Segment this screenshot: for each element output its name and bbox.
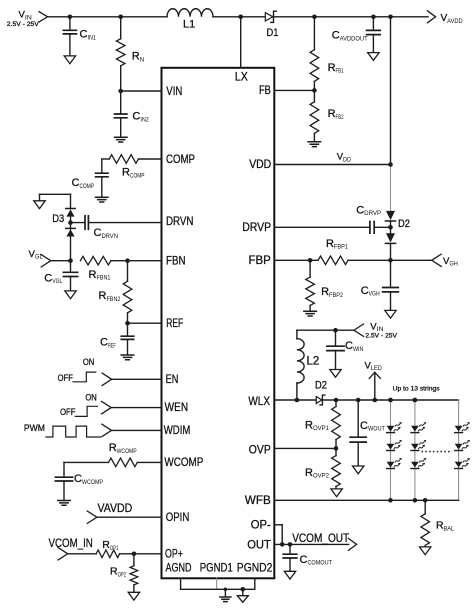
diode D1 <box>265 13 273 21</box>
ground (CIN1) <box>64 56 75 64</box>
wire VDD to D2 pump <box>390 165 392 212</box>
wire AGND stub <box>180 578 182 589</box>
wire EN pin <box>112 378 162 380</box>
diode D3 (lower) <box>66 229 74 236</box>
junction CWOUT <box>356 398 361 403</box>
junction OVP divider top <box>334 398 339 403</box>
svg-text:OVP: OVP <box>249 443 271 457</box>
junction rail/RFB1 <box>312 14 317 19</box>
svg-text:D2: D2 <box>398 218 410 230</box>
inductor L1 <box>167 9 213 17</box>
junction VIN/CIN2 <box>118 89 123 94</box>
wire pump to FBP node <box>390 244 392 260</box>
LED D3b <box>455 444 463 450</box>
wire FB pin <box>274 89 314 91</box>
diode D2 pump (lower) <box>386 233 395 242</box>
junction VGL/CVGL/RFBN1 <box>68 258 73 263</box>
junction FBP/CVGH <box>388 258 393 263</box>
svg-text:2.5V - 25V: 2.5V - 25V <box>365 332 398 339</box>
capacitor CVGH <box>390 260 392 287</box>
wire AVDD rail down to VDD node <box>390 17 392 165</box>
svg-text:Up to 13 strings: Up to 13 strings <box>393 385 440 392</box>
LED D1a <box>387 426 395 432</box>
resistor RCOMP <box>109 155 138 164</box>
wire LED string 1 <box>390 400 392 500</box>
svg-text:OP-: OP- <box>251 518 271 532</box>
junction FBP/RFBP2 <box>308 258 313 263</box>
ground (earth, bus) <box>224 589 226 597</box>
svg-text:OFF: OFF <box>58 373 73 384</box>
junction LED string 1 top <box>388 398 393 403</box>
resistor ROP2 <box>133 554 135 566</box>
svg-text:DRVN: DRVN <box>166 214 194 228</box>
ground (CCOMP) <box>96 197 109 202</box>
wire D3 top to ground <box>39 194 41 201</box>
ground (CWCOMP) <box>58 501 70 506</box>
wire LED string 3 <box>458 400 460 500</box>
diode D3 (upper) <box>66 209 74 216</box>
svg-text:D1: D1 <box>267 27 279 39</box>
wire VGL to junction <box>51 260 71 262</box>
junction rail/CIN1 <box>68 14 73 19</box>
junction rail/LX <box>238 14 243 19</box>
resistor RN <box>120 17 122 39</box>
svg-text:VDD: VDD <box>249 157 271 171</box>
junction rail/CAVDDOUT <box>371 14 376 19</box>
wire FBP pin <box>274 259 318 261</box>
svg-text:PGND2: PGND2 <box>237 561 273 575</box>
node VAVDD output arrow <box>427 11 435 23</box>
junction OUT/OP- <box>280 542 285 547</box>
junction OVP divider <box>334 446 339 451</box>
svg-text:WEN: WEN <box>165 400 189 414</box>
junction REF/CREF <box>125 321 130 326</box>
diode D2 pump (upper) <box>386 211 395 220</box>
svg-text:L1: L1 <box>183 19 195 31</box>
ground (CREF) <box>121 355 134 360</box>
svg-text:FB: FB <box>259 83 271 97</box>
node VIN terminal (boost) <box>354 324 364 336</box>
wire REF pin <box>128 322 162 324</box>
svg-text:EN: EN <box>166 372 179 386</box>
resistor RFB2 <box>313 90 315 101</box>
svg-text:COMP: COMP <box>166 152 195 166</box>
capacitor CVGL <box>70 261 72 273</box>
junction rail/VDD branch <box>388 14 393 19</box>
ground (CVGL) <box>65 291 76 299</box>
svg-text:D2: D2 <box>315 380 327 392</box>
capacitor CREF <box>127 323 129 336</box>
ground (RBAL) <box>420 547 431 555</box>
svg-text:WCOMP: WCOMP <box>164 455 203 469</box>
wire VIN pin <box>121 90 162 92</box>
resistor RFBN1 <box>80 256 110 265</box>
wire VDD pin <box>274 164 390 166</box>
resistor RFBN2 <box>127 261 129 282</box>
junction VLED <box>373 398 378 403</box>
ground (D3 top) <box>34 201 45 209</box>
junction OUT/CCOMOUT <box>288 542 293 547</box>
LED D3c <box>455 462 463 468</box>
svg-text:OPIN: OPIN <box>166 510 190 524</box>
svg-text:ON: ON <box>83 357 95 368</box>
dots (more strings) <box>422 451 453 453</box>
inductor L2 <box>296 330 298 339</box>
wire ground bus <box>181 588 255 590</box>
wire between pump diodes <box>390 221 392 233</box>
LED D1c <box>387 462 395 468</box>
resistor RFBP2 <box>309 260 311 277</box>
junction LED string 2 top <box>413 398 418 403</box>
ground (ROP2) <box>128 592 139 600</box>
capacitor CIN1 <box>69 17 71 30</box>
wire WEN pin <box>111 407 161 409</box>
ground (CWIN) <box>330 370 341 378</box>
svg-text:PGND1: PGND1 <box>200 561 233 575</box>
capacitor CCOMOUT <box>289 544 291 554</box>
svg-text:DRVP: DRVP <box>242 220 271 234</box>
junction D3/CDRVN <box>68 220 73 225</box>
svg-text:FBN: FBN <box>166 253 186 267</box>
ground (RFB2) <box>308 142 321 147</box>
LED D3a <box>455 426 463 432</box>
wire OP- pin <box>274 524 282 526</box>
svg-text:OFF: OFF <box>60 407 75 418</box>
junction LED string 1 top (redraw) <box>388 398 393 403</box>
svg-text:FBP: FBP <box>249 253 271 267</box>
svg-text:ON: ON <box>85 392 97 403</box>
wire LX pin to rail <box>240 17 242 68</box>
wire L1 to D1 <box>213 16 265 18</box>
node WEN terminal <box>102 401 112 413</box>
ground (CWOUT) <box>353 466 364 474</box>
wire VIN to L2 <box>297 329 354 331</box>
junction FBN/RFBN2 <box>125 258 130 263</box>
svg-text:WDIM: WDIM <box>164 423 191 437</box>
junction OP+/ROP2 <box>132 552 137 557</box>
capacitor CCOMP <box>101 159 103 173</box>
LED D2b <box>411 444 419 450</box>
svg-text:VCOM_OUT: VCOM_OUT <box>292 531 349 545</box>
wire WDIM pin <box>112 429 162 431</box>
ground (CIN2) <box>115 137 128 142</box>
LED D1b <box>387 444 395 450</box>
resistor RWCOMP <box>109 458 138 467</box>
resistor RFBP1 <box>318 256 348 265</box>
ground (CCOMOUT) <box>284 571 295 579</box>
wire between D3 diodes <box>70 217 72 229</box>
resistor RFB1 <box>313 17 315 50</box>
wire top rail VIN to L1 <box>48 16 167 18</box>
resistor ROP1 <box>96 550 119 558</box>
capacitor CAVDDOUT <box>372 17 374 31</box>
wire FBN pin <box>128 260 162 262</box>
junction RBAL <box>423 498 428 503</box>
node VCOM_OUT arrow <box>348 538 356 550</box>
svg-text:VCOM_IN: VCOM_IN <box>49 536 93 550</box>
LED D2a <box>411 426 419 432</box>
junction LED string 2 top (redraw) <box>413 398 418 403</box>
capacitor CWIN <box>335 330 337 346</box>
wire OP+ pin <box>120 553 162 555</box>
junction bus/signal ground <box>241 587 246 592</box>
ground (RFBP2) <box>304 311 317 316</box>
svg-text:AGND: AGND <box>166 561 192 575</box>
svg-text:VIN: VIN <box>166 84 182 98</box>
resistor RBAL <box>424 500 426 514</box>
ground (CVGH) <box>385 310 396 318</box>
wire LED string 2 <box>414 400 416 500</box>
wire PGND2 stub <box>254 578 256 589</box>
capacitor CWCOMP <box>63 462 65 477</box>
capacitor CDRVP <box>370 222 374 234</box>
svg-text:VAVDD: VAVDD <box>98 501 133 515</box>
wire D3 to VGL node <box>70 237 72 261</box>
node VLED arrow <box>374 372 376 400</box>
svg-text:D3: D3 <box>52 213 64 225</box>
ground (CAVDDOUT) <box>368 53 379 61</box>
svg-text:WFB: WFB <box>245 493 271 507</box>
wire D1 to VAVDD arrow <box>275 16 428 18</box>
wire VCOM_IN to ROP1 <box>68 553 97 555</box>
wire DRVN pin <box>88 222 161 224</box>
junction rail/RN <box>118 14 123 19</box>
capacitor CIN2 <box>120 91 122 114</box>
wire DRVP pin <box>274 226 370 228</box>
resistor ROVP1 <box>335 400 337 407</box>
IC U1 main controller box <box>162 68 275 579</box>
svg-text:WLX: WLX <box>248 394 270 408</box>
node EN terminal <box>102 373 112 385</box>
junction bus/earth ground <box>224 588 228 592</box>
svg-text:L2: L2 <box>307 356 320 368</box>
capacitor CDRVN <box>71 222 85 224</box>
wire OUT pin <box>274 543 348 545</box>
wire FBP to VGH terminal <box>391 259 432 261</box>
svg-text:2.5V - 25V: 2.5V - 25V <box>7 21 40 28</box>
junction WLX/L2 <box>295 398 300 403</box>
svg-text:OP+: OP+ <box>165 546 183 560</box>
capacitor CWOUT <box>357 400 359 437</box>
svg-text:REF: REF <box>166 316 183 330</box>
junction DRVP/pump <box>388 225 393 230</box>
wire PGND1 stub <box>216 578 218 589</box>
svg-text:PWM: PWM <box>24 423 45 434</box>
junction VDD <box>388 162 393 167</box>
wire WLX pin <box>274 399 316 401</box>
resistor ROVP2 <box>335 448 337 455</box>
ground (ROVP2) <box>331 489 342 497</box>
diode D2 (boost) <box>316 397 322 404</box>
junction FB divider <box>312 88 317 93</box>
ground (signal, bus) <box>242 589 244 595</box>
wire OVP pin <box>274 447 336 449</box>
node WDIM terminal <box>102 424 112 436</box>
wire boost output node <box>324 399 459 401</box>
svg-text:LX: LX <box>235 69 248 83</box>
wire WFB pin <box>274 499 458 501</box>
junction string2 bottom <box>413 498 418 503</box>
junction CWIN <box>333 328 338 333</box>
node VGH terminal <box>432 254 442 266</box>
wire OPIN pin <box>97 516 162 518</box>
LED D2c <box>411 462 419 468</box>
svg-text:OUT: OUT <box>247 537 271 551</box>
junction string1 bottom <box>388 498 393 503</box>
